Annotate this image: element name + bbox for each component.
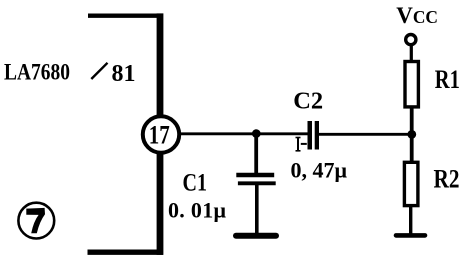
polarity mark at C2: [296, 137, 307, 152]
node junction R1/R2: [407, 130, 416, 139]
ground (C1): [236, 233, 276, 239]
wire R2 to ground: [409, 205, 412, 235]
svg-text:C1: C1: [183, 170, 208, 197]
resistor R2: [404, 162, 418, 205]
capacitor C2: [310, 121, 317, 150]
wire VCC to R1: [410, 46, 413, 62]
ground (R2): [396, 233, 425, 238]
resistor R1: [405, 62, 418, 107]
wire R1 to R2: [410, 107, 414, 162]
figure number 7: [18, 203, 54, 239]
wire C2 to R divider node: [319, 133, 411, 136]
svg-text:VCC: VCC: [396, 3, 438, 28]
svg-text:0. 01μ: 0. 01μ: [168, 198, 226, 223]
node junction at C1: [252, 129, 261, 138]
svg-text:R1: R1: [435, 65, 460, 94]
wire pin17 to C2: [181, 132, 308, 135]
svg-text:R2: R2: [434, 165, 460, 194]
VCC terminal: [406, 35, 416, 45]
svg-text:81: 81: [112, 60, 136, 87]
svg-text:17: 17: [149, 120, 170, 150]
svg-text:0, 47μ: 0, 47μ: [291, 157, 348, 182]
svg-text:LA7680: LA7680: [4, 60, 70, 86]
IC U1 LA7680/81 outline (bracket): [88, 13, 164, 255]
IC label LA7680/81: [4, 60, 136, 88]
wire node to C1: [254, 134, 258, 174]
svg-text:C2: C2: [293, 88, 323, 115]
pin 17 terminal: [143, 116, 179, 152]
capacitor C1: [236, 175, 275, 234]
